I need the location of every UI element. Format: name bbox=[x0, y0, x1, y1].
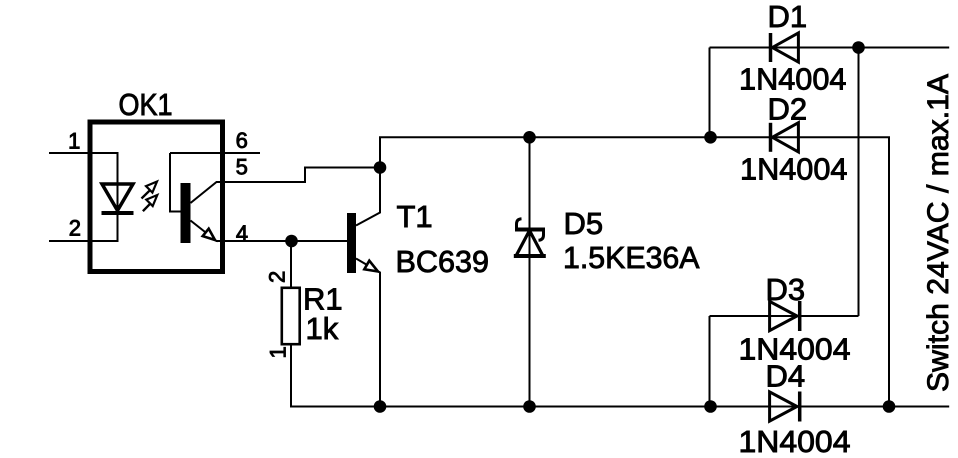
svg-text:1N4004: 1N4004 bbox=[740, 151, 848, 186]
svg-text:1: 1 bbox=[68, 129, 80, 154]
svg-text:2: 2 bbox=[69, 216, 81, 241]
svg-text:D1: D1 bbox=[768, 0, 808, 34]
svg-text:D5: D5 bbox=[564, 206, 604, 241]
svg-text:1k: 1k bbox=[306, 311, 339, 346]
svg-text:1: 1 bbox=[266, 346, 291, 358]
svg-text:2: 2 bbox=[265, 271, 290, 283]
svg-text:1.5KE36A: 1.5KE36A bbox=[563, 240, 700, 275]
svg-text:T1: T1 bbox=[397, 199, 433, 234]
svg-text:1N4004: 1N4004 bbox=[739, 424, 851, 458]
svg-text:Switch 24VAC / max.1A: Switch 24VAC / max.1A bbox=[922, 74, 955, 392]
svg-text:D4: D4 bbox=[766, 358, 806, 393]
svg-text:D2: D2 bbox=[768, 92, 808, 127]
svg-text:BC639: BC639 bbox=[396, 244, 490, 279]
svg-text:D3: D3 bbox=[766, 272, 806, 307]
svg-text:4: 4 bbox=[236, 221, 248, 246]
svg-text:5: 5 bbox=[236, 155, 248, 180]
svg-text:OK1: OK1 bbox=[119, 87, 173, 122]
svg-text:6: 6 bbox=[236, 128, 248, 153]
